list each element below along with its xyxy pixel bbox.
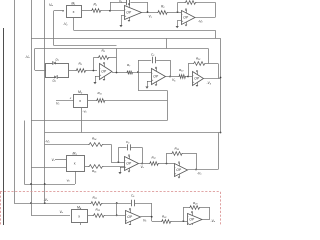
svg-text:OP: OP (101, 70, 107, 74)
svg-text:R₁₀: R₁₀ (179, 68, 184, 72)
svg-text:R₂₀: R₂₀ (96, 208, 101, 212)
svg-text:M₃: M₃ (73, 151, 78, 155)
svg-text:-Vₒ: -Vₒ (197, 172, 202, 176)
svg-text:-: - (188, 215, 189, 218)
svg-text:-: - (152, 72, 153, 75)
svg-text:OP: OP (126, 11, 132, 15)
svg-text:R₁: R₁ (94, 2, 97, 6)
svg-text:OP: OP (194, 77, 200, 81)
svg-text:OP: OP (189, 218, 195, 222)
svg-text:OP: OP (153, 75, 159, 79)
svg-text:x: x (79, 99, 81, 103)
svg-text:Vₐ: Vₐ (49, 3, 54, 7)
svg-text:-Vₑ: -Vₑ (198, 19, 203, 23)
svg-text:-: - (193, 74, 194, 77)
svg-text:OP: OP (126, 162, 132, 166)
svg-text:OP: OP (183, 16, 189, 20)
svg-text:D₁: D₁ (56, 57, 59, 61)
svg-text:C₁: C₁ (119, 0, 122, 3)
svg-text:x: x (74, 162, 76, 166)
svg-text:M₂: M₂ (78, 90, 83, 94)
svg-text:-V₅: -V₅ (207, 81, 212, 85)
svg-text:M₁: M₁ (71, 1, 75, 5)
svg-text:-: - (126, 213, 127, 216)
svg-text:-Vₑ: -Vₑ (25, 55, 30, 59)
svg-text:-Vₔ: -Vₔ (211, 219, 216, 223)
svg-text:-V₁: -V₁ (63, 22, 67, 26)
svg-text:R₂₁: R₂₁ (93, 196, 97, 200)
svg-text:-Vₒ: -Vₒ (45, 140, 50, 144)
svg-text:-: - (125, 159, 126, 162)
svg-text:R₁₁: R₁₁ (98, 91, 102, 95)
svg-text:-: - (175, 166, 176, 169)
svg-text:x: x (78, 214, 80, 218)
svg-text:-: - (182, 13, 183, 16)
svg-text:OP: OP (127, 215, 133, 219)
svg-text:-: - (125, 8, 126, 11)
svg-text:-: - (100, 67, 101, 70)
svg-text:R₁₈: R₁₈ (175, 147, 180, 151)
svg-text:-Vₓ: -Vₓ (44, 198, 49, 202)
svg-text:x: x (73, 10, 75, 14)
svg-text:V₁: V₁ (149, 14, 152, 18)
svg-text:OP: OP (176, 168, 182, 172)
svg-text:M₄: M₄ (77, 205, 82, 209)
